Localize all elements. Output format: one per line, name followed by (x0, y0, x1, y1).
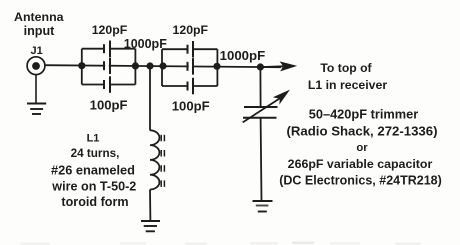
junction node B (132, 62, 139, 69)
svg-text:50–420pF trimmer: 50–420pF trimmer (309, 107, 419, 122)
wire: variable capacitor to ground (260, 118, 263, 201)
label: To top of L1 in receiver (308, 61, 388, 92)
wire: J1 to ground (35, 75, 37, 104)
wire: L1 to ground (149, 190, 151, 222)
capacitor 1000pF (group 1 middle) (104, 58, 110, 75)
label: L1 description (51, 133, 136, 210)
inductor L1 (toroid coil) (150, 130, 164, 189)
svg-text:J1: J1 (30, 45, 42, 57)
svg-text:#26 enameled: #26 enameled (51, 163, 135, 178)
junction node F (trimmer tap) (257, 63, 264, 70)
svg-text:1000pF: 1000pF (124, 37, 167, 51)
svg-text:L1: L1 (87, 133, 100, 145)
svg-text:(Radio Shack, 272-1336): (Radio Shack, 272-1336) (287, 124, 438, 139)
svg-text:To top of: To top of (320, 61, 372, 75)
capacitor 120pF (group 1 top) (82, 41, 136, 58)
wire: group 1 right riser (134, 49, 136, 85)
ground (below J1) (27, 104, 46, 115)
faint scan smudges (bottom edge) (20, 242, 421, 245)
wire: tap down to L1 (149, 66, 151, 131)
wire: tap down to variable capacitor (259, 67, 261, 107)
junction node A (78, 62, 85, 69)
junction node D (159, 62, 166, 69)
svg-text:Antenna: Antenna (14, 10, 64, 24)
capacitor 1000pF (group 2 middle) (188, 58, 194, 75)
wire: main horizontal line (45, 65, 281, 67)
svg-text:input: input (24, 24, 56, 38)
svg-text:or: or (356, 142, 368, 154)
svg-text:1000pF: 1000pF (220, 48, 265, 63)
wire: group 2 left riser (161, 49, 163, 86)
svg-text:100pF: 100pF (90, 98, 128, 113)
connector J1 (27, 57, 45, 75)
capacitor 120pF (group 2 top) (162, 41, 217, 58)
svg-text:266pF variable capacitor: 266pF variable capacitor (288, 157, 433, 171)
ground (below variable capacitor) (253, 201, 273, 212)
junction node E (213, 63, 220, 70)
label: trimmer / variable capacitor options (279, 107, 442, 188)
variable capacitor (trimmer) (243, 90, 290, 123)
label: Antenna input (14, 10, 64, 38)
output arrow (to receiver) (263, 61, 297, 71)
ground (below L1) (141, 221, 160, 231)
svg-text:100pF: 100pF (172, 99, 210, 114)
svg-text:wire on T-50-2: wire on T-50-2 (51, 180, 136, 194)
wire: group 1 left riser (81, 49, 83, 85)
svg-text:(DC Electronics, #24TR218): (DC Electronics, #24TR218) (279, 174, 442, 188)
svg-text:120pF: 120pF (92, 23, 128, 37)
svg-text:120pF: 120pF (173, 23, 209, 37)
svg-text:toroid form: toroid form (61, 195, 128, 209)
svg-text:L1 in receiver: L1 in receiver (308, 78, 388, 92)
capacitor 100pF (group 1 bottom) (82, 76, 136, 93)
svg-text:24 turns,: 24 turns, (71, 147, 120, 160)
capacitor 100pF (group 2 bottom) (162, 78, 217, 95)
junction node C (L1 tap) (146, 62, 153, 69)
wire: group 2 right riser (216, 49, 218, 86)
